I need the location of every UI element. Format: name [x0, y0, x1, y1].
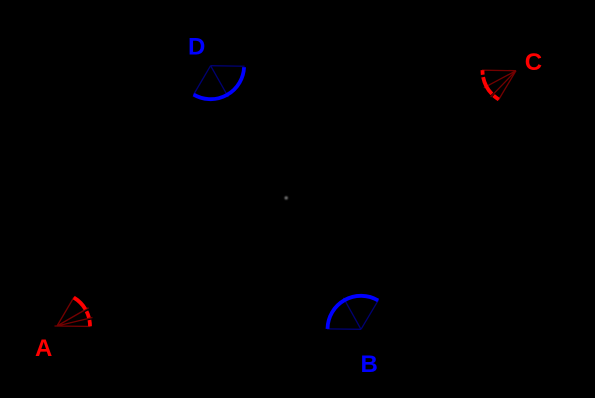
svg-text:B: B	[361, 351, 378, 378]
svg-text:C: C	[525, 49, 542, 76]
svg-text:A: A	[35, 335, 52, 362]
svg-text:D: D	[188, 33, 205, 60]
